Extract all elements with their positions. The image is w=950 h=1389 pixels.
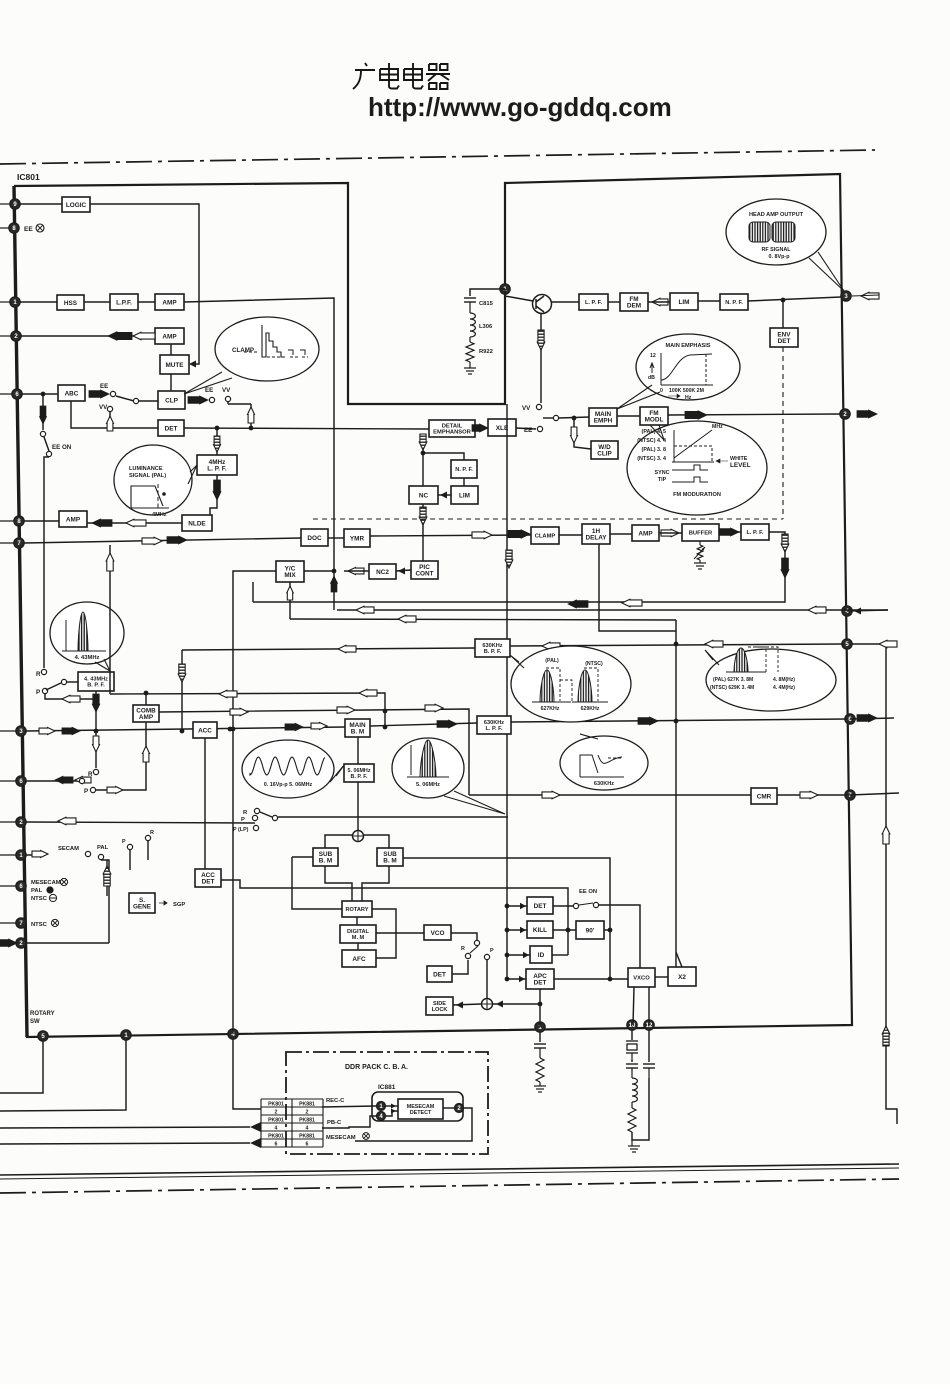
svg-text:PK881: PK881 <box>299 1101 315 1107</box>
block ROTARY <box>342 901 372 917</box>
wire pin1 to detect <box>386 1105 398 1107</box>
contact VV (ABC) <box>107 406 112 411</box>
arrow striped down (x507) <box>505 550 513 568</box>
svg-text:6: 6 <box>275 1141 278 1147</box>
wire DET2 to R contact <box>452 960 468 974</box>
svg-text:PK801: PK801 <box>268 1101 284 1107</box>
svg-text:0. 8Vp-p: 0. 8Vp-p <box>769 254 791 260</box>
svg-text:BUFFER: BUFFER <box>689 531 713 537</box>
svg-text:4. 4M(Hz): 4. 4M(Hz) <box>773 685 795 691</box>
wire stub pin 6 ABC <box>0 393 17 395</box>
svg-text:NTSC: NTSC <box>31 896 48 902</box>
ellipse callout MAIN EMPHASIS <box>636 334 740 400</box>
wire AMP2 to MUTE <box>170 344 172 355</box>
wire P to COMB AMP <box>96 722 146 790</box>
pin 2 terminal <box>16 938 26 948</box>
arrow hollow left (pin5 ext) <box>879 640 897 648</box>
block HSS <box>57 295 84 310</box>
arrow filled down (4.43 out) <box>92 694 100 712</box>
arrow filled down (EE ON) <box>40 406 47 424</box>
block NC <box>409 486 438 504</box>
arrow hollow left (FM DEM in) <box>652 298 668 306</box>
arrow filled right (pin2 ext) <box>0 939 17 947</box>
wire R contact drop <box>147 841 149 860</box>
arrow hollow right (pin7 row) <box>142 537 162 545</box>
arrow hollow right (amp-buffer) <box>661 529 679 537</box>
block LPF3 <box>741 524 769 540</box>
svg-text:L.P.F.: L.P.F. <box>116 299 132 306</box>
arrow filled left (pin2 row) <box>108 332 132 340</box>
wire DET out to DETAIL EMPHANSOR <box>184 428 429 429</box>
svg-text:REC-C: REC-C <box>326 1098 345 1104</box>
junction x676/row644 <box>674 642 679 647</box>
arrow hollow left (row648) <box>338 645 356 653</box>
arrow striped down (NC out) <box>419 507 427 525</box>
svg-text:L. P. F.: L. P. F. <box>207 466 227 473</box>
wire Y/C left drop <box>252 582 254 602</box>
arrow filled left (NLDE out) <box>92 519 112 527</box>
block DIGITAL MM <box>340 925 376 943</box>
wire LPF2-FMDEM <box>608 301 620 303</box>
IC U1 IC801 outline <box>14 174 852 1037</box>
svg-text:LUMINANCE: LUMINANCE <box>129 466 163 472</box>
pin 4 (IC881) <box>377 1112 386 1121</box>
block XLE <box>488 419 516 436</box>
wire pin5 bottom drop <box>0 1041 43 1093</box>
arrow hollow left (row644) <box>705 640 723 648</box>
wire 1H DELAY bottom loop <box>599 544 676 631</box>
waveform staircase (CLAMP) <box>262 325 285 357</box>
page border dash-dot top <box>0 150 875 164</box>
block 630KHz LPF <box>477 716 511 734</box>
svg-text:DETAIL: DETAIL <box>442 424 463 430</box>
wire NC2 from PIC CONT <box>396 570 411 571</box>
ellipse callout sine 5.06 <box>242 740 334 798</box>
arrow hollow right (pin3) <box>39 728 55 735</box>
wire pin1 to transistor <box>505 296 533 301</box>
ellipse callout 627/629 spectra <box>511 646 631 722</box>
svg-text:PK801: PK801 <box>268 1117 284 1123</box>
svg-text:RF SIGNAL: RF SIGNAL <box>761 247 791 253</box>
switch blade 4.43 <box>46 683 61 690</box>
wire W/D CLIP tap <box>574 418 591 449</box>
svg-text:L. P. F.: L. P. F. <box>585 300 602 306</box>
svg-text:629KHz: 629KHz <box>581 706 600 712</box>
wire EE ON down to R contact <box>44 457 49 668</box>
wires VXCO to bottom pins <box>633 987 634 1025</box>
wire AFC right loop to ROTARY right <box>372 909 396 958</box>
junction pin1 node (top) <box>500 284 510 294</box>
wire into 4.43 BPF <box>67 681 78 683</box>
switch blade ABC-CLP <box>116 396 134 401</box>
contact EE (CLP) <box>209 397 214 402</box>
arrow striped down (detail) <box>419 434 427 450</box>
svg-text:VV: VV <box>99 404 108 411</box>
wire KILL to 90 <box>553 929 576 931</box>
symbol circled-x at pin 8 <box>36 224 44 232</box>
svg-text:EE: EE <box>205 387 213 394</box>
svg-text:4: 4 <box>275 1125 278 1131</box>
IC801 left edge (thick bus) <box>14 186 27 1037</box>
wire PAL drop to row 943 <box>101 860 109 943</box>
block LIM <box>670 293 698 310</box>
ellipse callout CLAMP waveform <box>215 317 319 381</box>
svg-text:627KHz: 627KHz <box>541 706 560 712</box>
arrow hollow up (to VV) <box>248 407 255 423</box>
arrow hollow left (row602) <box>622 599 642 607</box>
wire stub pin 3 <box>0 730 21 732</box>
waveform RF burst <box>749 222 770 242</box>
row 795 CMR <box>469 794 751 796</box>
pin 9 terminal <box>10 199 20 209</box>
block DETAIL EMPHANSOR <box>429 420 475 437</box>
IC U2 IC881 outline <box>372 1092 463 1121</box>
svg-text:IC881: IC881 <box>378 1084 396 1091</box>
block 5.06MHz BPF <box>344 764 374 782</box>
capacitor C2 (vxco) <box>643 1064 655 1068</box>
svg-text:Hz: Hz <box>685 395 692 401</box>
wire ACC DET row to EE-ON drop <box>221 880 568 955</box>
pin1(855) SECAM/PAL contacts <box>26 854 44 856</box>
wire rotary-digital <box>356 917 358 925</box>
wire COMB AMP top <box>145 693 147 705</box>
svg-text:B. P. F.: B. P. F. <box>87 683 105 689</box>
emitter drop from transistor to VV <box>540 313 542 403</box>
pin 7 NTSC terminal <box>16 918 26 928</box>
arrow hollow up (x110) <box>106 553 114 571</box>
wire MAIN BM down to 5.06 BPF <box>357 737 359 764</box>
block SUB BM right <box>377 848 403 866</box>
svg-text:P (LP): P (LP) <box>233 827 249 833</box>
wire NLDE to AMP3 to pin <box>87 522 182 524</box>
svg-text:X2: X2 <box>678 974 686 981</box>
svg-text:DEM: DEM <box>627 303 641 310</box>
block AMP1 <box>155 294 184 310</box>
svg-text:DET: DET <box>534 980 547 987</box>
junction x233/ACC row <box>231 727 236 732</box>
svg-text:EE: EE <box>100 383 108 390</box>
wire pin7 ext stub <box>850 793 899 795</box>
junction x182/pin3 row <box>180 729 185 734</box>
pin 1 terminal <box>10 297 20 307</box>
wire node to Y/C MIX right <box>304 570 334 572</box>
svg-text:4MHz: 4MHz <box>152 512 167 518</box>
svg-text:MIX: MIX <box>284 572 296 579</box>
svg-text:EMPHANSOR: EMPHANSOR <box>433 430 471 436</box>
wire ENV DET up <box>782 300 784 328</box>
capacitor C1 (vxco) <box>626 1064 638 1068</box>
block MUTE <box>160 355 189 374</box>
svg-text:DET: DET <box>165 425 178 432</box>
ground (buffer pot) <box>694 563 706 569</box>
ellipse callout 5.06 spectrum <box>392 738 464 798</box>
waveform luma response <box>131 486 169 508</box>
arrow hollow left (pin3 ext) <box>861 292 879 300</box>
wire 4.43 BPF output down <box>95 691 97 731</box>
wire pin3 row <box>26 727 345 731</box>
block 630KHz BPF <box>475 639 510 657</box>
wire left loop into ROTARY <box>292 857 342 909</box>
svg-text:KILL: KILL <box>533 927 547 934</box>
wire digital-vco <box>376 932 424 934</box>
inductor (vxco) <box>632 1078 637 1102</box>
wire VXCO to X2 <box>655 976 668 978</box>
pin 4 terminal (bottom edge) <box>228 1029 238 1039</box>
svg-text:VV: VV <box>522 405 531 412</box>
svg-text:EE ON: EE ON <box>52 444 72 451</box>
wire amp-buffer <box>659 532 682 534</box>
crystal X801 <box>631 1030 633 1040</box>
wires adder to SUB boxes <box>325 835 352 848</box>
block MAIN EMPH <box>589 408 617 426</box>
svg-text:VXCO: VXCO <box>633 976 650 982</box>
caps pair <box>631 1060 633 1062</box>
resistor (vxco) <box>628 1108 636 1132</box>
block AFC <box>342 950 376 967</box>
R/P contacts (VCO) <box>465 953 470 958</box>
contact (MAIN EMPH in) <box>553 415 558 420</box>
svg-text:EE: EE <box>24 226 33 233</box>
arrow hollow up (outer wire) <box>882 826 890 844</box>
svg-text:MUTE: MUTE <box>165 362 184 369</box>
svg-text:VCO: VCO <box>431 930 445 937</box>
arrow filled right (pin3) <box>62 727 80 735</box>
wire LOGIC row <box>20 203 62 205</box>
svg-text:LIM: LIM <box>459 492 470 499</box>
wire stub pin 7 NTSC <box>0 922 21 924</box>
svg-text:TIP: TIP <box>658 477 667 483</box>
wire LPF3 elbow down <box>253 532 785 602</box>
callout tail 4.43MHz <box>95 659 110 671</box>
wire row 648 (630KHz BPF) <box>182 648 475 650</box>
svg-text:100K 500K 2M: 100K 500K 2M <box>669 388 704 394</box>
arrow filled right (CLP out) <box>188 396 208 404</box>
waveform sine <box>250 757 325 775</box>
wires SUB outputs to ROTARY <box>325 866 352 901</box>
svg-text:C815: C815 <box>479 301 494 307</box>
svg-text:LOCK: LOCK <box>432 1007 448 1013</box>
block ENV DET <box>770 328 798 347</box>
wire npf to pin3 <box>748 297 841 301</box>
pin 1 xtal terminal (bottom edge) <box>535 1022 545 1032</box>
ellipse callout 4.43MHz spectrum <box>50 602 124 664</box>
block LPF (HSS chain) <box>110 294 138 310</box>
wire pin2 row to AMP2 <box>21 335 155 337</box>
svg-text:SGP: SGP <box>173 902 185 908</box>
arrow filled down (4MHz out) <box>213 480 221 500</box>
contact mid (4.43 BPF) <box>61 679 66 684</box>
resistor (pin1) <box>536 1058 544 1082</box>
arrow filled right (BM out) <box>437 720 457 728</box>
wire 4MHz LPF to NLDE <box>210 475 217 515</box>
svg-text:AMP: AMP <box>66 516 81 523</box>
wire x182 drop <box>181 650 183 731</box>
arrow striped down (LPF3 out) <box>781 534 789 552</box>
block LOGIC <box>62 197 90 212</box>
junction row693/BM <box>383 725 388 730</box>
arrow hollow up (comb in) <box>143 746 150 762</box>
wire FM MODL to pin2 right <box>668 414 840 415</box>
wire SUB right output to x610 <box>403 858 610 900</box>
wire pin1 down the notch <box>504 289 506 404</box>
svg-text:(PAL) 3. 8: (PAL) 3. 8 <box>642 447 666 453</box>
arrow filled right (buffer out) <box>719 528 739 536</box>
svg-text:B. P. F.: B. P. F. <box>484 649 502 655</box>
svg-text:DETECT: DETECT <box>410 1110 432 1116</box>
wire pin2 out loop <box>390 1108 472 1141</box>
junction APC drop <box>538 1002 543 1007</box>
svg-text:DET: DET <box>433 971 446 978</box>
arrow hollow right (pin3 to BM) <box>311 723 327 730</box>
arrowhead into MUTE <box>189 361 196 368</box>
svg-text:R: R <box>150 830 154 836</box>
svg-text:AMP: AMP <box>139 714 154 721</box>
wire LIM2 to NC <box>438 494 451 496</box>
arrow filled right (pin3 to BM) <box>285 723 303 731</box>
wire APC out to VXCO <box>554 978 628 980</box>
wire SIDE LOCK to adder2 <box>453 1004 481 1005</box>
wire lim-npf <box>698 300 720 302</box>
wire stub pin 9 <box>0 203 15 205</box>
wire below pin3 row <box>95 731 97 768</box>
callout tail sine <box>330 764 345 782</box>
wire switch to CLP <box>139 400 158 402</box>
svg-text:YMR: YMR <box>350 535 365 542</box>
svg-text:(NTSC) 4. 4: (NTSC) 4. 4 <box>637 438 666 444</box>
wire lpf630 right to pin6 <box>511 719 847 722</box>
capacitor C815 <box>464 298 476 302</box>
arrow striped down (emitter) <box>537 330 545 350</box>
arrow hollow left (row822) <box>58 817 76 825</box>
callout tail FM MOD <box>650 425 664 440</box>
pin 2 terminal <box>16 817 26 827</box>
callout tail PAL627K <box>705 650 719 665</box>
ellipse callout FM MODULATION <box>627 421 767 515</box>
wire APC down to bottom pin <box>539 989 541 1027</box>
junction NPF tap <box>421 451 426 456</box>
wire pin1 bottom drop <box>0 1040 126 1111</box>
callout tail MAIN EMPHASIS <box>617 385 660 409</box>
pin 7 terminal (right edge) <box>845 790 855 800</box>
svg-text:HSS: HSS <box>64 300 78 307</box>
arrow hollow left (row619) <box>398 615 416 623</box>
wire notch column down to APC <box>506 404 508 979</box>
svg-text:SECAM: SECAM <box>58 846 79 852</box>
arrow hollow right (secam) <box>32 851 48 858</box>
callout tail LUMINANCE <box>188 465 197 484</box>
wire table row4 from left edge <box>0 1127 250 1128</box>
svg-text:AMP: AMP <box>162 333 177 340</box>
wire row 619 <box>290 619 676 620</box>
block APC DET <box>526 969 554 989</box>
arrow filled right (to CLAMP) <box>508 530 530 538</box>
callout tail 5.06 <box>444 791 505 814</box>
arrow filled right (row719) <box>638 717 658 725</box>
block DOC <box>301 529 328 546</box>
block KILL <box>527 921 553 938</box>
arrow hollow left (row610) <box>356 606 374 614</box>
arrow hollow left (row693 right) <box>359 689 377 697</box>
svg-text:12: 12 <box>650 353 656 359</box>
dashed boundary FM section <box>782 347 784 519</box>
svg-text:EE ON: EE ON <box>579 889 597 895</box>
junction ENV DET tap <box>781 298 786 303</box>
svg-text:PAL: PAL <box>97 845 109 851</box>
arrow filled right (pin7 row) <box>167 536 187 544</box>
wire HSS row pin1 <box>20 301 57 303</box>
arrow hollow up (VV ABC) <box>107 416 114 431</box>
wire switch to MAIN EMPH <box>543 417 553 419</box>
pin 8 AMP terminal <box>14 516 24 526</box>
svg-text:EMPH: EMPH <box>594 418 613 425</box>
arrow filled right (pin6 ext) <box>857 714 877 722</box>
wire SUB left input from left <box>292 856 313 858</box>
svg-text:NTSC: NTSC <box>31 922 48 928</box>
svg-text:MESECAM: MESECAM <box>326 1135 356 1141</box>
pin 3 RF out terminal (right edge) <box>841 291 851 301</box>
diamond arrow row6 <box>250 1138 261 1148</box>
junction 4MHz LPF tap <box>215 426 220 431</box>
svg-text:CLAMP: CLAMP <box>535 534 556 540</box>
svg-text:CLAMP: CLAMP <box>232 347 254 354</box>
pin 1 terminal (bottom edge) <box>121 1030 131 1040</box>
svg-text:4: 4 <box>306 1125 309 1131</box>
wire NPF2 to LIM2 <box>463 478 465 486</box>
svg-text:CONT: CONT <box>415 571 433 578</box>
arrow filled right (emphansor out) <box>472 424 488 432</box>
DDR PACK C.B.A. dash-dot box <box>286 1052 488 1154</box>
svg-text:DELAY: DELAY <box>585 535 607 542</box>
pin 8 EE terminal <box>9 223 19 233</box>
pin 6 terminal (right edge) <box>845 714 855 724</box>
wire pin4 bottom drop to PK table <box>233 1039 261 1109</box>
contact EE ON top <box>40 431 45 436</box>
arrow striped up (outer wire) <box>882 1026 890 1046</box>
wire CMR right <box>777 794 847 796</box>
wire mesecam row <box>355 1140 390 1142</box>
inductor L306 <box>470 313 475 337</box>
block AMP3 <box>59 511 87 527</box>
block 90deg <box>576 921 604 939</box>
block SIDE LOCK <box>426 997 453 1015</box>
svg-text:NLDE: NLDE <box>188 520 206 527</box>
svg-text:PB-C: PB-C <box>327 1120 342 1126</box>
arrow hollow left (row610 right) <box>808 606 826 614</box>
xtal chain pin1 <box>539 1032 541 1042</box>
svg-text:B. M: B. M <box>319 858 333 865</box>
pin 12 terminal (bottom edge) <box>644 1020 654 1030</box>
svg-text:ID: ID <box>538 952 545 959</box>
svg-text:0: 0 <box>660 388 663 394</box>
detail chain NPF/LIM/NC <box>422 437 424 487</box>
ellipse callout PAL627K table <box>706 649 836 711</box>
junction AMP1 drop <box>332 569 337 574</box>
svg-text:N. P. F.: N. P. F. <box>455 467 473 473</box>
block SUB BM left <box>313 848 338 866</box>
EE ON switch branch <box>42 394 44 430</box>
junction VV tap <box>249 426 254 431</box>
pin 1 SECAM terminal <box>16 850 26 860</box>
svg-text:6: 6 <box>306 1141 309 1147</box>
block 4.43MHz BPF <box>78 672 114 691</box>
svg-text:NC: NC <box>419 492 429 499</box>
svg-text:2: 2 <box>275 1109 278 1115</box>
wire clamp-1h <box>559 534 582 536</box>
svg-text:PK881: PK881 <box>299 1133 315 1139</box>
svg-text:N. P. F.: N. P. F. <box>725 300 743 306</box>
block 1H DELAY <box>582 524 610 544</box>
wire hollow left arrow under BPF <box>45 694 96 699</box>
